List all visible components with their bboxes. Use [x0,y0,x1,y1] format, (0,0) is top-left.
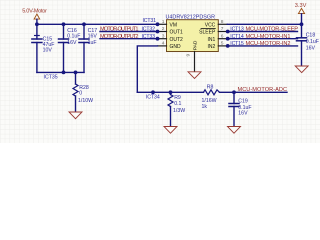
svg-text:3.3V: 3.3V [295,3,307,9]
pin 3 OUT2 [158,38,167,40]
svg-text:16V: 16V [238,111,248,117]
capacitor C19 [229,92,252,126]
svg-text:16V: 16V [306,46,316,52]
svg-text:R8: R8 [207,84,214,90]
svg-text:VM: VM [170,22,178,28]
svg-text:1: 1 [162,19,165,25]
pin 7 SLEEP [218,31,227,33]
svg-text:MOTOR-OUTPUT1: MOTOR-OUTPUT1 [100,27,139,33]
svg-text:R9: R9 [174,95,181,101]
pin 1 VM [158,23,167,25]
pin 5 IN2 [218,45,227,47]
svg-text:ICT14: ICT14 [230,34,244,40]
svg-text:C18: C18 [306,33,316,39]
svg-text:ICT15: ICT15 [230,41,244,47]
ground under R9 [164,127,177,134]
svg-text:9: 9 [186,54,192,57]
power port 5.0V-Motor [22,9,47,25]
wire VCC to 3.3V [227,23,301,25]
node junction C16 bottom [62,71,66,75]
ground under C19 [228,127,241,134]
svg-text:3: 3 [162,33,165,39]
node junction C19 top [232,90,236,94]
wire MCU-MOTOR-IN2 [227,45,297,47]
svg-text:1/3W: 1/3W [173,108,185,114]
svg-text:ICT34: ICT34 [146,94,160,100]
node junction at power port / C15 [35,22,39,26]
svg-text:8: 8 [221,19,224,25]
wire GND pin4 to ICT34 [137,46,157,92]
node junction [151,90,155,94]
svg-text:MCU-MOTOR-ADC: MCU-MOTOR-ADC [238,87,288,93]
svg-text:GND: GND [170,44,182,50]
svg-text:0.1uF: 0.1uF [306,39,319,45]
svg-text:1/16W: 1/16W [202,98,217,104]
svg-text:1uF: 1uF [88,40,97,46]
wire MOTOR-OUTPUT2 [100,38,158,40]
node junction R9 top [169,90,173,94]
svg-text:OUT1: OUT1 [170,30,184,36]
svg-text:OUT2: OUT2 [170,37,184,43]
svg-text:C19: C19 [238,98,248,104]
svg-text:1k: 1k [202,104,208,110]
svg-text:10V: 10V [43,47,53,53]
svg-text:2: 2 [162,26,165,32]
pin 8 VCC [218,23,227,25]
svg-text:MCU-MOTOR-IN1: MCU-MOTOR-IN1 [246,34,291,40]
svg-text:SLEEP: SLEEP [199,30,216,36]
resistor R8 [202,84,220,110]
svg-text:5: 5 [221,41,224,47]
svg-text:VCC: VCC [205,22,216,28]
svg-text:5.0V-Motor: 5.0V-Motor [22,9,47,15]
svg-text:16V: 16V [67,40,77,46]
pin 2 OUT1 [158,31,167,33]
svg-text:IN2: IN2 [208,44,216,50]
svg-text:ICT33: ICT33 [142,34,156,40]
svg-text:ICT31: ICT31 [143,18,157,24]
svg-text:PAD: PAD [192,40,198,50]
svg-text:ICT13: ICT13 [230,27,244,33]
ground under C18 [295,66,308,73]
wire MCU-MOTOR-IN1 [227,38,297,40]
pin 9 PAD [194,52,196,72]
svg-text:MOTOR-OUTPUT2: MOTOR-OUTPUT2 [100,34,139,40]
svg-text:MCU-MOTOR-IN2: MCU-MOTOR-IN2 [246,41,291,47]
svg-text:0.1: 0.1 [174,101,181,107]
wire MCU-MOTOR-SLEEP [227,31,297,33]
capacitor C16 [59,24,81,72]
ground under PAD [188,72,201,79]
svg-text:1/10W: 1/10W [78,98,93,104]
pin 6 IN1 [218,38,227,40]
op IC U4 DRV8212PDSGR [158,15,228,72]
power port 3.3V [295,3,307,24]
svg-text:ICT35: ICT35 [44,75,58,81]
svg-text:16V: 16V [88,33,98,39]
wire 5V top bus [37,23,158,25]
capacitor C15 [32,24,55,72]
svg-text:ICT32: ICT32 [142,27,156,33]
wire bottom bus ICT35 [37,71,84,73]
resistor R9 [168,92,185,126]
wire ICT34 horizontal [137,91,203,93]
wire MOTOR-OUTPUT1 [100,31,158,33]
svg-text:6: 6 [221,33,224,39]
node junction C16 top [62,22,66,26]
svg-text:4: 4 [162,41,165,47]
ground under R28 [69,112,82,119]
pin 4 GND [158,45,167,47]
svg-text:7: 7 [221,26,224,32]
svg-text:MCU-MOTOR-SLEEP: MCU-MOTOR-SLEEP [246,27,299,33]
svg-text:IN1: IN1 [208,37,216,43]
wire R8 to MCU-MOTOR-ADC [220,91,288,93]
resistor R28 [73,72,93,112]
capacitor C17 [79,24,97,72]
svg-text:0: 0 [79,91,82,97]
node junction C17 top [82,22,86,26]
capacitor C18 [297,24,319,66]
node junction R28 top [74,71,78,75]
